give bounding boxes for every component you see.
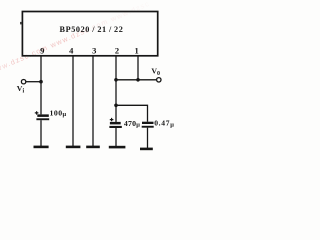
svg-text:1: 1 [134,45,138,55]
svg-text:BP5020 / 21 / 22: BP5020 / 21 / 22 [60,25,124,34]
svg-text:4: 4 [69,46,74,56]
svg-text:9: 9 [40,46,44,56]
svg-text:2: 2 [115,46,119,56]
svg-text:3: 3 [92,46,96,56]
